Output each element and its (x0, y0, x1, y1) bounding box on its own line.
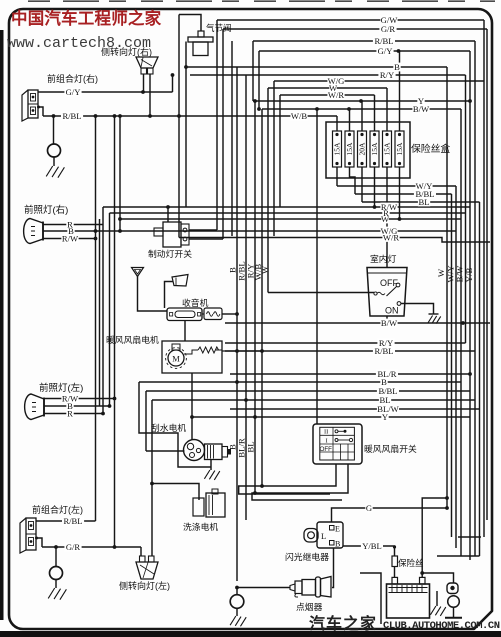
heater motor resistor (184, 347, 264, 354)
wire B/BL low (146, 391, 470, 451)
wire interior lamp switch feed (268, 292, 374, 294)
svg-text:I: I (326, 438, 328, 445)
wire battery positive riser (420, 496, 449, 577)
wire R/W bus (103, 207, 470, 414)
combo lamp right (22, 90, 38, 121)
wire G/W riser (216, 20, 218, 230)
svg-text:Y/BL: Y/BL (362, 541, 382, 551)
svg-text:制动灯开关: 制动灯开关 (148, 248, 192, 259)
svg-text:Y/B: Y/B (464, 268, 474, 283)
wire code labels (61, 15, 436, 552)
svg-text:G/R: G/R (381, 24, 396, 34)
radio label (182, 297, 209, 308)
wire G/R comboL (42, 545, 141, 549)
svg-text:前组合灯(右): 前组合灯(右) (47, 73, 98, 84)
wire Y low (190, 373, 470, 440)
svg-text:G/Y: G/Y (66, 87, 81, 97)
wire mid verticals (228, 67, 270, 581)
svg-text:W/R: W/R (383, 233, 399, 243)
wire W bus2 (118, 217, 461, 221)
wire R/Y low (225, 342, 466, 344)
washer motor label (183, 521, 218, 532)
svg-text:洗涤电机: 洗涤电机 (183, 521, 218, 532)
side lamp right label (101, 46, 152, 57)
wire interior lamp bottom (385, 316, 389, 324)
watermark url (7, 35, 151, 52)
svg-text:保险丝: 保险丝 (398, 558, 424, 568)
wire BL low (152, 398, 475, 556)
headlamp left label (39, 382, 83, 394)
svg-text:E: E (335, 525, 340, 534)
wire battery drop (360, 573, 381, 624)
svg-text:R/BL: R/BL (62, 111, 81, 121)
svg-text:M: M (172, 354, 180, 364)
headlamp right label (24, 204, 68, 216)
svg-text:B/W: B/W (455, 265, 465, 282)
combo lamp right label (47, 73, 98, 84)
heater motor M (166, 344, 187, 368)
svg-text:B/W: B/W (413, 104, 430, 114)
fuse box label (411, 142, 450, 155)
wire comboL lower tab (35, 537, 42, 548)
svg-text:前照灯(左): 前照灯(左) (39, 382, 83, 394)
throttle valve (188, 31, 213, 56)
wire fuse to battery (394, 567, 396, 578)
wire R/BL bus (253, 41, 475, 101)
wire fan switch feed riser (316, 109, 318, 424)
svg-text:BL: BL (419, 197, 430, 207)
svg-text:R: R (67, 409, 73, 419)
svg-text:暖风风扇开关: 暖风风扇开关 (364, 443, 417, 454)
svg-text:L: L (321, 531, 326, 541)
wire R/Y bus (190, 75, 466, 343)
svg-text:R: R (67, 220, 73, 230)
svg-text:G: G (366, 503, 372, 513)
svg-text:前照灯(右): 前照灯(右) (24, 204, 68, 216)
svg-text:20A: 20A (357, 142, 366, 156)
wire G/R bus (223, 29, 487, 520)
interior lamp ground (428, 314, 441, 324)
wire side lamp right leads (144, 74, 152, 118)
svg-text:CLUB.AUTOHOME.COM.CN: CLUB.AUTOHOME.COM.CN (383, 620, 500, 632)
footer url (383, 620, 500, 632)
wire R/BL low (225, 350, 475, 352)
svg-text:15A: 15A (382, 142, 391, 156)
flasher relay label (285, 551, 329, 562)
horn ground (430, 591, 445, 616)
ground comboL (48, 545, 66, 600)
svg-text:保险丝盒: 保险丝盒 (411, 142, 450, 155)
wire brake switch leads (166, 205, 223, 239)
watermark title (11, 8, 162, 28)
svg-text:暖风风扇电机: 暖风风扇电机 (106, 334, 159, 345)
wire side lamp left leads (140, 547, 142, 556)
throttle valve label (206, 23, 232, 33)
wire W/B feed (43, 114, 337, 118)
heater motor box (162, 341, 222, 373)
fuse inline (392, 556, 398, 567)
wire lighter feed (235, 586, 290, 590)
svg-text:BL/W: BL/W (377, 404, 399, 414)
ground comboR (46, 114, 64, 178)
svg-text:W/R: W/R (328, 90, 344, 100)
wire W bus (268, 88, 387, 293)
interior lamp (367, 268, 407, 317)
interior lamp label (370, 253, 397, 264)
fuse inline label (398, 558, 424, 568)
svg-text:B: B (335, 540, 340, 549)
svg-text:前组合灯(左): 前组合灯(左) (32, 504, 83, 515)
wire fan switch out1 (239, 464, 336, 494)
heater motor label (106, 334, 159, 345)
svg-text:侧转向灯(左): 侧转向灯(左) (119, 580, 170, 591)
wire comboR lower tab (37, 106, 43, 117)
combo lamp left (20, 518, 36, 553)
wire R headlampR (43, 224, 103, 226)
svg-text:点烟器: 点烟器 (296, 601, 323, 612)
svg-text:15A: 15A (395, 142, 404, 156)
svg-text:15A: 15A (332, 142, 341, 156)
wire Y feed (253, 99, 472, 103)
footer site name (309, 614, 377, 633)
lighter ground (230, 588, 246, 627)
wire G/Y bus (257, 51, 470, 560)
wire G/R riser (222, 29, 224, 239)
wire W/R bus (280, 95, 375, 207)
brake switch label (148, 248, 192, 259)
lighter (290, 577, 331, 598)
side lamp left label (119, 580, 170, 591)
wire W/G bus (274, 81, 484, 236)
wire B/BL (355, 194, 452, 537)
svg-text:B/W: B/W (381, 318, 398, 328)
wire throttle valve feed (179, 15, 201, 32)
svg-text:闪光继电器: 闪光继电器 (285, 551, 329, 562)
radio fuse unit (202, 308, 222, 320)
wiper motor ground (204, 460, 219, 480)
radio (167, 308, 202, 321)
flasher relay (304, 522, 343, 549)
wire B headlampL (44, 404, 111, 408)
wire B bus (184, 65, 447, 508)
side lamp right (136, 57, 158, 74)
scan edge bottom strip (0, 631, 501, 637)
wire B headlampR (43, 237, 97, 241)
antenna (132, 268, 168, 312)
wire wiper feed (146, 450, 185, 452)
wire washer feed (150, 482, 199, 500)
wire left verticals (96, 116, 115, 547)
wiper motor (184, 440, 232, 461)
wire radio feed (222, 312, 239, 316)
fuse output wires (337, 167, 401, 268)
svg-text:G/Y: G/Y (378, 46, 393, 56)
fuse feed wires (337, 49, 400, 131)
svg-text:气节阀: 气节阀 (206, 23, 232, 33)
horn coil (445, 596, 462, 618)
wire BL/W low (230, 408, 479, 410)
wiper motor label (151, 422, 186, 433)
wire G relay (332, 506, 449, 522)
brake switch (154, 222, 189, 247)
svg-text:II: II (324, 429, 328, 436)
svg-text:侧转向灯(右): 侧转向灯(右) (101, 46, 152, 57)
wire BL (362, 202, 480, 556)
svg-text:15A: 15A (370, 142, 379, 156)
battery (387, 577, 430, 618)
wire R bus (110, 213, 467, 406)
wire R/W headlampL (44, 397, 116, 401)
wire W/R long (177, 15, 490, 243)
svg-text:W: W (381, 214, 390, 224)
svg-text:15A: 15A (345, 142, 354, 156)
wire right verticals (436, 41, 481, 556)
washer motor (193, 489, 225, 517)
svg-text:汽车之家: 汽车之家 (309, 614, 377, 633)
horn (422, 573, 458, 594)
side lamp left (136, 556, 158, 579)
svg-text:W: W (436, 268, 446, 277)
wire W/Y (337, 186, 456, 548)
svg-text:Y: Y (382, 412, 388, 422)
heater fan switch (313, 424, 362, 464)
svg-text:刮水电机: 刮水电机 (151, 422, 186, 433)
wire R headlampL (44, 412, 105, 416)
headlamp left (25, 394, 44, 420)
svg-text:ON: ON (385, 306, 399, 316)
wire Y/BL (343, 545, 396, 556)
svg-text:R/BL: R/BL (63, 516, 82, 526)
wire B low (139, 380, 461, 467)
svg-text:收音机: 收音机 (182, 297, 209, 308)
wire G/Y comboR (38, 73, 174, 94)
svg-text:G/R: G/R (66, 542, 81, 552)
wire B/W feed (262, 107, 461, 111)
svg-text:室内灯: 室内灯 (370, 253, 397, 264)
wire R/BL riser (186, 41, 232, 236)
wire G/W bus (217, 20, 484, 537)
lighter label (296, 601, 323, 612)
headlamp right (24, 219, 43, 244)
svg-text:W: W (259, 265, 269, 274)
wire heater motor feed (184, 321, 186, 341)
scan edge top line (28, 0, 495, 2)
svg-text:W/B: W/B (291, 111, 307, 121)
wire R/BL comboL (36, 520, 96, 522)
wire fan switch out2 (252, 464, 348, 500)
svg-text:OFF: OFF (320, 446, 333, 453)
fuse box (326, 122, 410, 178)
scan edge left strip (0, 30, 4, 620)
combo lamp left label (32, 504, 83, 515)
wire interior lamp ground lead (401, 304, 434, 315)
svg-text:R/W: R/W (62, 234, 79, 244)
wire relay to lighter (332, 549, 334, 588)
svg-text:R/BL: R/BL (374, 36, 393, 46)
wire V120 (119, 116, 121, 231)
svg-text:中国汽车工程师之家: 中国汽车工程师之家 (11, 8, 162, 28)
svg-text:BL: BL (246, 441, 256, 452)
speaker (165, 275, 189, 309)
heater fan switch label (364, 443, 417, 454)
svg-text:R/BL: R/BL (374, 346, 393, 356)
wire W/G long (43, 229, 456, 233)
wire BL/R low (230, 372, 472, 376)
wire B/W low (225, 321, 490, 325)
svg-text:B: B (394, 62, 400, 72)
svg-text:R/Y: R/Y (380, 70, 394, 80)
